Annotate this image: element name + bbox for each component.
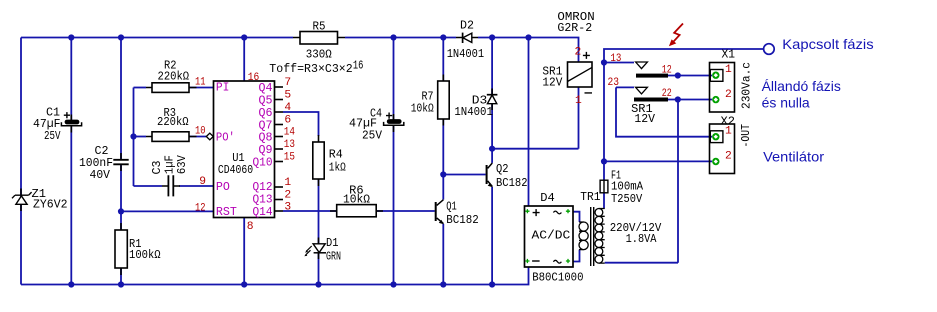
pin stub Q14 pin3: [275, 210, 284, 212]
svg-text:2: 2: [575, 47, 582, 59]
wire Q6 to R4: [283, 112, 319, 136]
IC U1 CD4060 body: [214, 81, 275, 218]
svg-text:RST: RST: [216, 206, 237, 219]
wire F1 to TR1 primary: [603, 193, 605, 209]
svg-text:PO: PO: [216, 181, 230, 194]
zener diode Z1: [12, 189, 32, 212]
svg-text:100kΩ: 100kΩ: [129, 249, 161, 262]
svg-text:T250V: T250V: [611, 193, 642, 206]
resistor R4: [313, 135, 324, 186]
svg-text:1µF: 1µF: [163, 155, 176, 174]
wire left rail (down to ground): [20, 38, 22, 285]
svg-text:100mA: 100mA: [611, 181, 643, 194]
wire contact 22 to X1 pin 2: [668, 99, 712, 101]
wire contact 12 to X1 pin 1: [668, 75, 712, 77]
svg-text:63V: 63V: [176, 155, 189, 174]
wire Q2 collector node to relay coil pin 1: [492, 87, 578, 149]
svg-text:12V: 12V: [634, 113, 655, 126]
X1 terminal 1: [712, 72, 719, 79]
svg-text:CD4060: CD4060: [218, 164, 253, 177]
junction contact 12 node: [675, 72, 681, 78]
svg-text:10: 10: [195, 126, 206, 138]
svg-text:220kΩ: 220kΩ: [158, 70, 190, 83]
svg-text:1: 1: [725, 126, 732, 138]
svg-text:Állandó fázis: Állandó fázis: [762, 78, 841, 94]
svg-text:230Va.c: 230Va.c: [741, 62, 754, 109]
svg-text:ZY6V2: ZY6V2: [33, 198, 68, 211]
resistor R7: [438, 75, 450, 126]
wire R3 left stub: [134, 136, 147, 138]
svg-text:12: 12: [195, 203, 206, 215]
X1 terminal 2: [712, 96, 719, 103]
resistor R3: [146, 132, 197, 142]
wire ground rail: [21, 267, 529, 285]
wire C2 / R1 branch: [120, 38, 122, 285]
junction pin8 bottom: [241, 281, 247, 287]
junction R1 bottom: [118, 281, 124, 287]
wire top rail right (D2 to relay coil pin 2): [478, 38, 579, 63]
svg-text:1N4001: 1N4001: [447, 48, 485, 61]
wire R7 branch / Q1 collector: [442, 38, 444, 200]
svg-text:9: 9: [199, 176, 206, 188]
wire contact 23 feed: [616, 86, 634, 88]
junction C1 top: [68, 34, 74, 40]
junction Q1 emitter bottom: [440, 281, 446, 287]
svg-text:14: 14: [284, 127, 295, 139]
junction contact 13 node: [601, 59, 607, 65]
svg-text:2: 2: [284, 190, 291, 202]
junction D4 plus top: [525, 34, 531, 40]
svg-text:22: 22: [662, 88, 672, 100]
D4 corner mark bottom-left: [525, 259, 529, 263]
svg-text:D1: D1: [326, 237, 339, 250]
transistor Q2 BC182: [486, 163, 493, 187]
svg-text:10kΩ: 10kΩ: [411, 102, 434, 115]
svg-text:1.8VA: 1.8VA: [626, 233, 657, 246]
label R6: [343, 184, 370, 206]
svg-text:1N4001: 1N4001: [454, 106, 493, 119]
connector X2 pin1 marker box: [710, 131, 723, 143]
svg-text:Q4: Q4: [259, 82, 273, 95]
svg-text:5: 5: [284, 90, 291, 102]
svg-text:X1: X1: [722, 48, 736, 61]
label TR1: [580, 191, 661, 246]
capacitor C4 polarized: [384, 113, 404, 133]
svg-text:12V: 12V: [542, 77, 562, 90]
svg-text:1: 1: [725, 64, 732, 76]
pin stub Q6 pin4: [275, 111, 284, 113]
svg-text:16: 16: [353, 59, 364, 72]
fuse F1: [600, 180, 608, 193]
wire Q2 collector: [491, 149, 493, 163]
svg-text:47µF: 47µF: [349, 117, 377, 130]
pin stub Q4 pin7: [275, 86, 284, 88]
svg-text:TR1: TR1: [580, 191, 600, 204]
label R5: [306, 21, 332, 62]
resistor R6: [330, 205, 383, 217]
svg-text:1kΩ: 1kΩ: [329, 161, 346, 174]
capacitor C1 polarized: [61, 112, 81, 132]
wire TR1 primary bottom return: [605, 100, 678, 263]
junction D1 bottom: [315, 281, 321, 287]
terminal circle kapcsolt fazis: [764, 44, 775, 55]
svg-text:10kΩ: 10kΩ: [343, 194, 370, 207]
D4 corner mark bottom-right: [566, 259, 570, 263]
junction C4 top: [390, 34, 396, 40]
inverted pin diamond PO' pin10: [206, 133, 213, 140]
label Q1: [446, 200, 479, 227]
wire D3 branch: [491, 38, 493, 149]
X2 terminal 2: [712, 158, 719, 165]
wire R6 to Q1 base: [376, 210, 435, 212]
wire D1 to ground: [318, 253, 320, 285]
svg-text:Q10: Q10: [253, 156, 273, 169]
junction Q2 collector node: [489, 146, 495, 152]
junction Q2 emitter bottom: [489, 281, 495, 287]
svg-text:1: 1: [575, 95, 582, 107]
wire Q1 collector node to Q2 base: [443, 174, 485, 176]
pin stub Q5 pin5: [275, 99, 284, 101]
D4 corner mark top-left: [525, 209, 529, 213]
label C1: [33, 107, 61, 144]
bridge D4 tilde bottom: [553, 260, 561, 263]
svg-text:R4: R4: [329, 148, 343, 161]
transformer TR1 secondary coil: [579, 222, 588, 250]
svg-text:Ventilátor: Ventilátor: [763, 148, 824, 164]
label R7: [411, 90, 434, 115]
bridge D4 plus mark: [533, 209, 540, 216]
svg-text:C3: C3: [151, 160, 164, 174]
svg-text:Q8: Q8: [259, 131, 273, 144]
svg-text:23: 23: [608, 77, 620, 89]
D4 corner mark top-right: [566, 209, 570, 213]
label R3: [157, 107, 189, 129]
pin stub Q10 pin15: [275, 161, 284, 163]
svg-text:6: 6: [284, 115, 291, 127]
wire R2/R3/C3 left node: [133, 88, 135, 187]
svg-text:GRN: GRN: [326, 250, 341, 263]
svg-text:Toff=R3×C3×2: Toff=R3×C3×2: [269, 63, 352, 76]
label OMRON G2R-2: [557, 11, 594, 35]
wire R4 to D1: [318, 179, 320, 244]
capacitor C2: [113, 153, 128, 171]
svg-text:Q2: Q2: [496, 163, 509, 176]
svg-text:Q12: Q12: [253, 181, 273, 194]
svg-text:13: 13: [610, 53, 621, 65]
svg-text:7: 7: [284, 77, 291, 89]
wire top +V rail left section: [21, 37, 293, 39]
svg-text:D2: D2: [460, 19, 474, 32]
label Toff formula: [269, 59, 363, 76]
pin stub Q12 pin1: [275, 186, 284, 188]
wire contact 13 feed: [604, 62, 634, 64]
resistor R2: [146, 83, 197, 93]
junction pin16 top: [241, 34, 247, 40]
junction contact 22 node: [675, 96, 681, 102]
label SR1 coil: [542, 66, 562, 90]
label D4: [532, 192, 584, 284]
svg-text:11: 11: [195, 77, 206, 89]
relay contact 23-22 fixed triangle: [636, 87, 648, 94]
svg-text:Kapcsolt fázis: Kapcsolt fázis: [782, 36, 873, 52]
label D1: [326, 237, 341, 264]
label SR1 contacts: [631, 103, 655, 126]
svg-text:2: 2: [725, 89, 732, 101]
junction C2 top: [118, 34, 124, 40]
wire D4 ac top to TR1 secondary: [573, 212, 580, 222]
lightning strike symbol: [669, 24, 683, 47]
diode D3: [487, 89, 498, 111]
svg-text:AC/DC: AC/DC: [532, 230, 571, 243]
wire node to C3: [134, 185, 163, 187]
junction D3 top: [489, 34, 495, 40]
transformer TR1 primary coil: [595, 209, 605, 264]
label R4: [329, 148, 346, 174]
svg-text:Q6: Q6: [259, 107, 273, 120]
label F1: [611, 169, 643, 206]
wire D4 plus to +V rail: [528, 38, 530, 207]
svg-text:R5: R5: [313, 21, 326, 34]
svg-text:15: 15: [284, 152, 295, 164]
label Z1: [32, 188, 68, 211]
bridge rectifier D4 body: [525, 206, 574, 267]
svg-text:25V: 25V: [44, 130, 61, 143]
label C2: [79, 145, 113, 182]
junction Q1 collector node: [440, 171, 446, 177]
label R1: [129, 238, 161, 262]
wire R2 left stub: [134, 87, 147, 89]
svg-text:-OUT: -OUT: [740, 124, 753, 148]
label D3: [454, 94, 493, 118]
svg-text:és nulla: és nulla: [762, 94, 810, 110]
label D2: [447, 19, 485, 61]
svg-text:47µF: 47µF: [33, 118, 61, 131]
wire kapcsolt fazis line: [604, 49, 764, 180]
svg-text:12: 12: [662, 65, 672, 77]
svg-text:1: 1: [284, 177, 291, 189]
wire Q1 emitter to ground: [442, 224, 444, 285]
svg-text:D4: D4: [540, 192, 555, 205]
diode D2: [456, 33, 478, 43]
svg-text:13: 13: [284, 139, 295, 151]
bridge D4 minus mark: [532, 260, 540, 262]
svg-text:BC182: BC182: [496, 177, 528, 190]
label R2: [158, 59, 190, 83]
svg-text:4: 4: [284, 102, 291, 114]
bridge D4 tilde top: [553, 211, 561, 214]
svg-text:330Ω: 330Ω: [306, 49, 332, 62]
svg-text:B80C1000: B80C1000: [532, 271, 583, 284]
svg-text:Q1: Q1: [446, 200, 457, 213]
relay contact 13-12 fixed triangle: [636, 62, 648, 69]
junction C1 bottom: [68, 281, 74, 287]
svg-text:G2R-2: G2R-2: [557, 22, 592, 35]
relay coil SR1: [568, 52, 593, 93]
pin stub Q7 pin6: [275, 124, 284, 126]
pin stub Q8 pin14: [275, 136, 284, 138]
wire RST node: [121, 210, 214, 212]
label Q2: [496, 163, 528, 190]
junction RST tap: [118, 208, 124, 214]
svg-text:25V: 25V: [362, 130, 382, 143]
wire contact 23 to X2 pin 1: [616, 87, 712, 136]
wire D4 ac bottom to TR1 secondary: [573, 250, 580, 262]
svg-text:8: 8: [247, 221, 254, 233]
junction X2 pin2 node: [601, 158, 607, 164]
wire R2 to pin PI: [189, 87, 214, 89]
label U1: [218, 152, 253, 177]
svg-text:Q14: Q14: [253, 206, 273, 219]
X2 terminal 1: [712, 133, 719, 140]
pin stub Q9 pin13: [275, 148, 284, 150]
wire C1 branch: [70, 38, 72, 285]
LED D1: [304, 238, 326, 260]
label C3 rotated: [151, 155, 189, 174]
wire Q14 to R6: [283, 210, 337, 212]
wire R3 to pin PO': [189, 136, 206, 138]
transformer TR1 core: [591, 207, 594, 266]
svg-text:220kΩ: 220kΩ: [157, 116, 189, 129]
pin stub Q13 pin2: [275, 199, 284, 201]
transistor Q1 BC182: [435, 200, 444, 225]
svg-text:PI: PI: [216, 82, 230, 95]
label C4: [349, 107, 382, 142]
connector X1 body: [710, 63, 735, 113]
svg-text:3: 3: [284, 202, 291, 214]
svg-text:Q9: Q9: [259, 144, 273, 157]
junction R3 tap: [130, 133, 136, 139]
connector X2 body: [710, 124, 735, 174]
wire pin 8 to ground: [243, 218, 245, 285]
svg-text:BC182: BC182: [446, 214, 479, 227]
resistor R5: [293, 32, 345, 45]
relay contact 13-12 arm: [636, 74, 668, 78]
resistor R1: [115, 223, 127, 275]
wire top rail middle (R5 to D2): [345, 37, 456, 39]
svg-text:40V: 40V: [90, 169, 111, 182]
junction R7 top: [440, 34, 446, 40]
wire X2 pin 2 tap: [604, 160, 712, 162]
svg-text:Q13: Q13: [253, 193, 273, 206]
wire Q2 emitter to ground: [491, 187, 493, 285]
wire pin 16 to +V: [243, 38, 245, 82]
capacitor C3: [162, 175, 180, 196]
wire C3 to pin PO: [179, 185, 214, 187]
wire C4 branch: [393, 38, 395, 285]
svg-text:Q5: Q5: [259, 94, 273, 107]
junction C4 bottom: [390, 281, 396, 287]
relay contact 23-22 arm: [634, 98, 668, 102]
connector X1 pin1 marker box: [710, 70, 723, 82]
svg-text:2: 2: [725, 150, 732, 162]
svg-text:PO': PO': [216, 131, 235, 144]
